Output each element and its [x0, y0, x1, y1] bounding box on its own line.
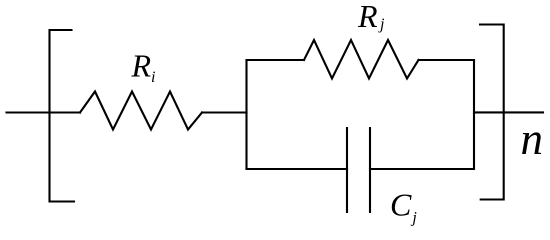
left bracket	[50, 30, 75, 202]
svg-text:n: n	[521, 114, 544, 164]
resistor Ri	[80, 92, 202, 130]
right bracket	[480, 25, 504, 200]
node left junction vertical	[245, 60, 247, 169]
wire bottom rail right	[370, 168, 474, 170]
node right junction vertical	[473, 60, 475, 169]
capacitor Cj plate left	[346, 128, 348, 212]
svg-text:Cj: Cj	[390, 187, 417, 227]
wire input left	[7, 111, 81, 113]
svg-text:Rj: Rj	[357, 0, 385, 34]
wire bottom rail left	[247, 168, 348, 170]
wire top rail right	[419, 59, 475, 61]
capacitor Cj plate right	[369, 128, 371, 212]
wire top rail left	[247, 59, 305, 61]
wire Ri to parallel box	[202, 111, 247, 113]
wire output right	[474, 111, 543, 113]
resistor Rj	[304, 40, 419, 79]
svg-text:Ri: Ri	[131, 48, 156, 87]
